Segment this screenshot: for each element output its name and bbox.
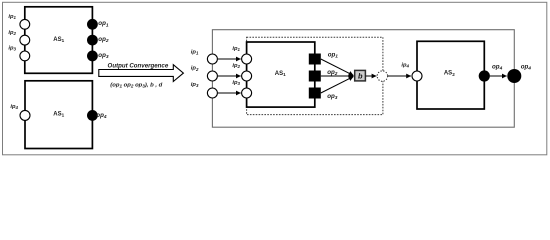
- output port op3 (top-left box): [87, 51, 98, 62]
- dashed node d: [377, 71, 387, 81]
- svg-text:ip4: ip4: [10, 104, 18, 110]
- output square op1: [309, 54, 321, 65]
- input port ip3 (outer box): [207, 88, 217, 98]
- outer frame: [3, 2, 547, 155]
- input port ip2 (top-left box): [20, 35, 30, 45]
- svg-text:Output Convergence: Output Convergence: [108, 62, 169, 69]
- output convergence block arrow: [99, 65, 184, 82]
- svg-text:ip4: ip4: [401, 62, 409, 68]
- wire op3 to b: [321, 77, 354, 93]
- input port ip1 (top-left box): [20, 19, 30, 29]
- box AS1 bottom-left: [25, 81, 92, 149]
- input port ip1 (outer box): [207, 54, 217, 64]
- svg-text:AS1: AS1: [275, 71, 286, 77]
- box AS1 top-left: [25, 7, 93, 74]
- svg-text:ip3: ip3: [8, 46, 16, 52]
- inner input port ip1: [242, 54, 252, 64]
- wire op4 to outer op4: [490, 75, 507, 77]
- svg-text:(op1 op2 op3), b , d: (op1 op2 op3), b , d: [110, 82, 162, 88]
- wire ip3 to inner ip3: [218, 92, 241, 94]
- svg-text:ip1: ip1: [232, 46, 240, 52]
- output square op2: [309, 71, 321, 82]
- output port op4 (outer box): [507, 69, 521, 83]
- input port ip4 (AS2): [412, 71, 422, 81]
- svg-text:ip2: ip2: [191, 66, 199, 72]
- wire ip2 to inner ip2: [218, 75, 241, 77]
- inner input port ip3: [242, 88, 252, 98]
- outer system box: [212, 30, 514, 128]
- output port op4 (AS2): [479, 70, 490, 81]
- wire b to d: [366, 75, 377, 77]
- svg-text:ip1: ip1: [8, 14, 16, 20]
- dashed boundary box: [247, 37, 383, 114]
- b box: [355, 70, 366, 81]
- svg-text:ip2: ip2: [8, 30, 16, 36]
- output port op1 (top-left box): [87, 19, 98, 30]
- input port ip3 (top-left box): [20, 51, 30, 61]
- wire op2 to b: [321, 75, 354, 77]
- inner input port ip2: [242, 71, 252, 81]
- wire op1 to b: [321, 59, 354, 75]
- svg-text:ip2: ip2: [232, 63, 240, 69]
- svg-text:ip1: ip1: [191, 50, 199, 56]
- input port ip2 (outer box): [207, 71, 217, 81]
- svg-text:AS1: AS1: [53, 111, 64, 117]
- input port ip4 (bottom-left box): [20, 110, 30, 120]
- svg-text:b: b: [358, 71, 363, 80]
- svg-text:AS2: AS2: [444, 71, 455, 77]
- output port op4 (bottom-left box): [87, 110, 98, 121]
- output port op2 (top-left box): [87, 35, 98, 46]
- output square op3: [309, 88, 321, 99]
- svg-text:AS1: AS1: [53, 37, 64, 43]
- svg-text:ip3: ip3: [191, 82, 199, 88]
- box AS1 middle: [247, 42, 315, 107]
- wire d to AS2 ip4: [388, 75, 411, 77]
- box AS2: [417, 41, 484, 109]
- svg-text:ip3: ip3: [232, 80, 240, 86]
- wire ip1 to inner ip1: [218, 58, 241, 60]
